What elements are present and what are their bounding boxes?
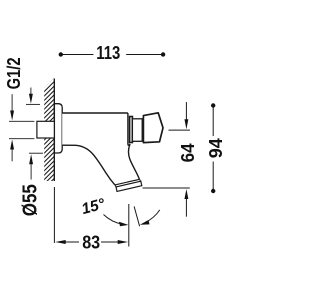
svg-text:113: 113 xyxy=(96,43,120,63)
spout outer curve xyxy=(62,145,114,185)
svg-text:94: 94 xyxy=(206,138,226,158)
angle arc left arrowhead xyxy=(119,222,128,226)
left extension line (wall face) xyxy=(53,187,55,243)
push knob xyxy=(143,113,163,143)
dimension 113 line segments xyxy=(61,54,163,56)
dimension G1/2 upper arrowhead xyxy=(10,111,14,121)
dimension 83 extension lines and segments xyxy=(54,187,128,247)
vertical reference ray from spout tip xyxy=(128,204,130,247)
dimension 83 right arrowhead xyxy=(118,240,129,244)
dimension 113 left dot xyxy=(59,52,63,56)
wall face line xyxy=(53,79,55,182)
button stem xyxy=(132,119,142,142)
body top line xyxy=(62,112,128,114)
dimension 64 ticks and shafts xyxy=(143,102,191,217)
spout tube end line xyxy=(115,179,140,185)
dimension 83 left arrowhead xyxy=(55,240,65,244)
dimension 94 line segments xyxy=(212,106,214,192)
dimension 94 top dot xyxy=(211,103,215,107)
svg-text:G1/2: G1/2 xyxy=(4,57,24,89)
angle 15 deg tilted ray xyxy=(134,206,140,226)
dimension 64 lower arrowhead xyxy=(184,189,188,199)
body end cap xyxy=(128,113,130,145)
dimension O55 extension lines and shafts xyxy=(26,88,43,180)
svg-text:83: 83 xyxy=(82,232,100,252)
collar ring xyxy=(130,117,133,143)
angle arc right segment xyxy=(145,210,160,223)
dimension O55 upper arrowhead xyxy=(29,94,33,104)
dimension 113 right dot xyxy=(161,52,165,56)
dimension G1/2 lower arrowhead xyxy=(10,140,14,150)
aerator connector edges xyxy=(115,179,141,187)
faucet body white fill xyxy=(62,113,139,185)
dimension 64 upper arrowhead xyxy=(184,119,188,129)
dimension O55 lower arrowhead xyxy=(29,154,33,164)
aerator band rect xyxy=(116,181,142,191)
dimension 94 bottom dot xyxy=(211,189,215,193)
spout inner curve xyxy=(128,144,139,179)
svg-text:64: 64 xyxy=(178,143,198,162)
angle arc left segment xyxy=(104,215,124,225)
wall hatching xyxy=(40,69,58,201)
dimension G1/2 extension lines and shafts xyxy=(9,94,34,161)
svg-text:Ø55: Ø55 xyxy=(20,184,42,216)
flange xyxy=(54,104,62,153)
pipe G1/2 through wall xyxy=(37,121,56,138)
angle arc right arrowhead xyxy=(140,220,150,225)
